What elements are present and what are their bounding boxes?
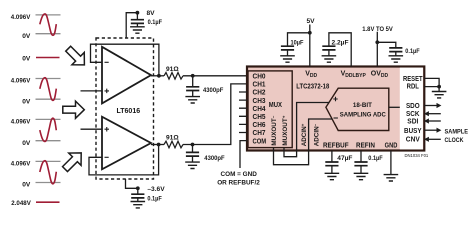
svg-text:4.096V: 4.096V: [11, 14, 31, 21]
svg-text:47µF: 47µF: [337, 155, 352, 162]
svg-text:4300pF: 4300pF: [203, 87, 223, 94]
svg-text:CNV: CNV: [406, 136, 420, 143]
svg-text:91Ω: 91Ω: [166, 135, 179, 142]
svg-text:LTC2372-18: LTC2372-18: [296, 82, 329, 91]
svg-text:8V: 8V: [147, 10, 156, 17]
svg-text:4.096V: 4.096V: [11, 161, 31, 168]
svg-text:0.1µF: 0.1µF: [368, 155, 382, 162]
svg-text:MUX: MUX: [269, 100, 282, 109]
svg-text:1.8V TO 5V: 1.8V TO 5V: [362, 26, 393, 33]
svg-text:4.096V: 4.096V: [11, 119, 31, 126]
svg-text:0V: 0V: [22, 98, 31, 105]
svg-text:5V: 5V: [307, 18, 316, 25]
svg-text:0V: 0V: [22, 182, 31, 189]
svg-text:REFBUF: REFBUF: [323, 142, 349, 149]
svg-text:MUXOUT+: MUXOUT+: [281, 115, 289, 145]
svg-text:SCK: SCK: [406, 111, 420, 118]
svg-text:SDO: SDO: [406, 103, 420, 110]
svg-text:COM: COM: [253, 136, 267, 145]
svg-text:0.1µF: 0.1µF: [147, 196, 161, 203]
svg-text:10µF: 10µF: [291, 40, 304, 47]
svg-text:REFIN: REFIN: [356, 142, 375, 149]
svg-text:ADCIN+: ADCIN+: [301, 123, 309, 146]
svg-text:BUSY: BUSY: [404, 128, 422, 135]
svg-text:ADCIN–: ADCIN–: [313, 123, 321, 146]
svg-text:4300pF: 4300pF: [204, 155, 224, 162]
svg-text:OR REFBUF/2: OR REFBUF/2: [217, 180, 260, 187]
svg-text:2.2µF: 2.2µF: [332, 40, 349, 47]
svg-text:RESET: RESET: [403, 76, 423, 83]
svg-text:0V: 0V: [22, 55, 31, 62]
svg-text:0V: 0V: [22, 33, 31, 40]
svg-text:SDI: SDI: [407, 119, 418, 126]
svg-text:18-BIT: 18-BIT: [353, 102, 373, 109]
svg-text:SAMPLING ADC: SAMPLING ADC: [340, 111, 386, 118]
svg-text:0.1µF: 0.1µF: [405, 48, 419, 55]
svg-text:SAMPLE: SAMPLE: [445, 129, 469, 136]
svg-text:4.096V: 4.096V: [11, 78, 31, 85]
svg-text:COM = GND: COM = GND: [220, 171, 257, 178]
svg-text:2.048V: 2.048V: [11, 200, 31, 207]
svg-text:LT6016: LT6016: [117, 108, 141, 115]
svg-text:0.1µF: 0.1µF: [148, 19, 162, 26]
svg-text:CLOCK: CLOCK: [445, 137, 464, 144]
svg-text:0V: 0V: [22, 140, 31, 147]
svg-text:GND: GND: [385, 142, 398, 149]
svg-text:RDL: RDL: [407, 83, 420, 90]
svg-text:91Ω: 91Ω: [166, 66, 179, 73]
svg-text:DN1034 F01: DN1034 F01: [405, 153, 429, 158]
svg-text:MUXOUT–: MUXOUT–: [270, 115, 278, 145]
svg-text:–3.6V: –3.6V: [147, 186, 165, 193]
